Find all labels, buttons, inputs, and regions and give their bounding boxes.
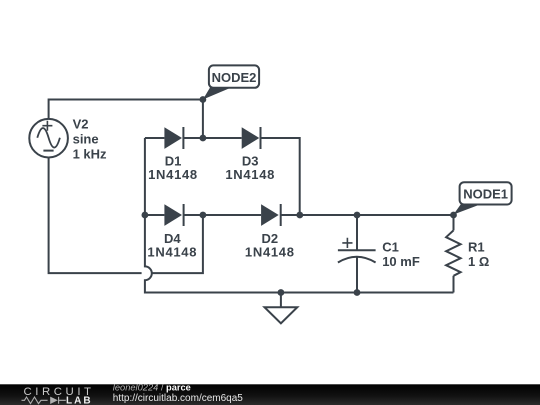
- svg-text:LAB: LAB: [66, 395, 93, 405]
- svg-text:V2: V2: [73, 117, 89, 132]
- svg-text:leonel0224 / parce: leonel0224 / parce: [113, 382, 191, 392]
- svg-text:D2: D2: [261, 231, 278, 246]
- svg-text:1 kHz: 1 kHz: [73, 146, 107, 161]
- svg-text:1N4148: 1N4148: [225, 167, 275, 182]
- svg-text:1 Ω: 1 Ω: [468, 254, 489, 269]
- svg-text:1N4148: 1N4148: [148, 167, 198, 182]
- svg-text:sine: sine: [73, 132, 99, 147]
- svg-text:C1: C1: [382, 239, 399, 254]
- svg-text:10 mF: 10 mF: [382, 254, 420, 269]
- svg-text:NODE1: NODE1: [463, 187, 508, 202]
- svg-text:1N4148: 1N4148: [147, 245, 197, 260]
- svg-text:http://circuitlab.com/cem6qa5: http://circuitlab.com/cem6qa5: [113, 393, 243, 404]
- svg-text:NODE2: NODE2: [212, 70, 257, 85]
- svg-text:D4: D4: [164, 231, 181, 246]
- svg-text:1N4148: 1N4148: [245, 245, 295, 260]
- svg-text:R1: R1: [468, 239, 485, 254]
